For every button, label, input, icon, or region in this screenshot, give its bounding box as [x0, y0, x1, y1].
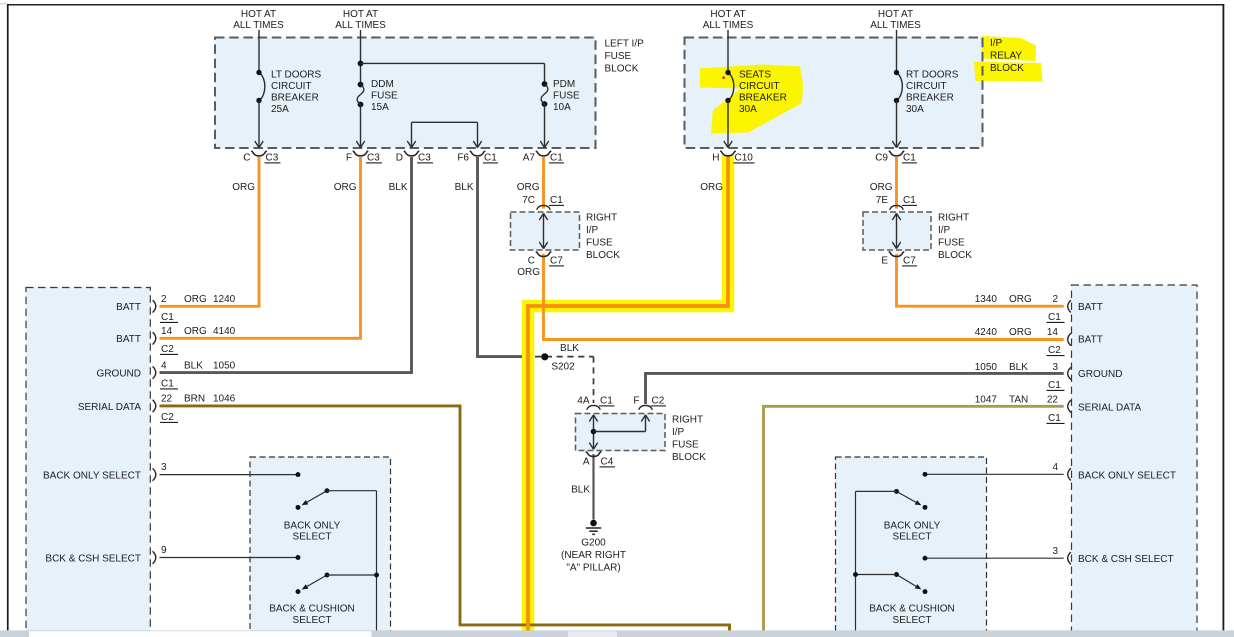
svg-text:2: 2 — [1052, 294, 1058, 305]
svg-text:C9: C9 — [875, 153, 888, 164]
svg-text:BACK & CUSHION: BACK & CUSHION — [269, 604, 355, 615]
svg-text:ALL TIMES: ALL TIMES — [870, 20, 921, 31]
svg-text:C3: C3 — [367, 153, 380, 164]
svg-text:ALL TIMES: ALL TIMES — [335, 20, 386, 31]
svg-text:BCK & CSH SELECT: BCK & CSH SELECT — [45, 554, 141, 565]
svg-text:S202: S202 — [551, 362, 575, 373]
svg-text:D: D — [396, 153, 403, 164]
svg-text:22: 22 — [161, 394, 173, 405]
svg-text:BCK & CSH SELECT: BCK & CSH SELECT — [1078, 554, 1174, 565]
svg-text:4240: 4240 — [975, 327, 998, 338]
svg-text:BLK: BLK — [389, 182, 408, 193]
svg-text:BACK ONLY: BACK ONLY — [884, 520, 941, 531]
svg-text:C1: C1 — [1048, 413, 1061, 424]
svg-text:1240: 1240 — [213, 294, 236, 305]
svg-text:HOT AT: HOT AT — [241, 9, 276, 20]
svg-text:FUSE: FUSE — [672, 440, 699, 451]
svg-text:GROUND: GROUND — [97, 369, 141, 380]
svg-text:C3: C3 — [266, 153, 279, 164]
svg-text:BLOCK: BLOCK — [938, 250, 972, 261]
svg-text:C1: C1 — [550, 195, 563, 206]
svg-text:DDM: DDM — [371, 79, 394, 90]
svg-text:C1: C1 — [161, 312, 174, 323]
svg-text:BLK: BLK — [1009, 362, 1028, 373]
svg-text:7C: 7C — [522, 195, 535, 206]
svg-text:1046: 1046 — [213, 394, 236, 405]
svg-text:BLOCK: BLOCK — [672, 452, 706, 463]
svg-text:BLK: BLK — [455, 182, 474, 193]
svg-text:ORG: ORG — [184, 294, 207, 305]
svg-text:I/P: I/P — [586, 225, 599, 236]
svg-text:ORG: ORG — [517, 182, 540, 193]
svg-text:A7: A7 — [523, 153, 536, 164]
svg-text:9: 9 — [161, 545, 167, 556]
svg-text:I/P: I/P — [672, 427, 685, 438]
svg-text:"A" PILLAR): "A" PILLAR) — [566, 563, 620, 574]
svg-text:FUSE: FUSE — [605, 51, 632, 62]
svg-text:15A: 15A — [371, 102, 389, 113]
svg-text:RT DOORS: RT DOORS — [906, 70, 959, 81]
svg-text:ORG: ORG — [517, 267, 540, 278]
svg-text:4: 4 — [1052, 462, 1058, 473]
svg-text:C1: C1 — [484, 153, 497, 164]
svg-text:BLOCK: BLOCK — [605, 64, 639, 75]
svg-text:A: A — [583, 457, 590, 468]
svg-text:C1: C1 — [161, 379, 174, 390]
svg-text:3: 3 — [161, 462, 167, 473]
svg-text:22: 22 — [1047, 395, 1059, 406]
svg-text:C3: C3 — [418, 153, 431, 164]
svg-text:G200: G200 — [581, 538, 606, 549]
svg-text:ORG: ORG — [232, 182, 255, 193]
svg-text:C2: C2 — [161, 344, 174, 355]
svg-text:BREAKER: BREAKER — [739, 93, 787, 104]
svg-text:14: 14 — [1047, 327, 1059, 338]
svg-text:SELECT: SELECT — [293, 532, 332, 543]
svg-text:C10: C10 — [735, 153, 754, 164]
svg-text:ORG: ORG — [184, 326, 207, 337]
svg-text:FUSE: FUSE — [586, 238, 613, 249]
svg-text:SELECT: SELECT — [893, 615, 932, 626]
svg-text:2: 2 — [161, 294, 167, 305]
svg-text:BREAKER: BREAKER — [906, 93, 954, 104]
svg-text:4A: 4A — [577, 396, 590, 407]
svg-text:PDM: PDM — [553, 79, 575, 90]
svg-text:1050: 1050 — [975, 362, 998, 373]
svg-text:C2: C2 — [652, 396, 665, 407]
svg-text:GROUND: GROUND — [1078, 369, 1122, 380]
svg-text:F6: F6 — [457, 153, 469, 164]
svg-text:LEFT I/P: LEFT I/P — [605, 39, 645, 50]
svg-text:ALL TIMES: ALL TIMES — [703, 20, 754, 31]
svg-text:BACK & CUSHION: BACK & CUSHION — [869, 604, 955, 615]
svg-text:ORG: ORG — [1009, 327, 1032, 338]
svg-text:ORG: ORG — [700, 182, 723, 193]
svg-text:30A: 30A — [906, 104, 924, 115]
svg-text:C1: C1 — [600, 396, 613, 407]
svg-text:BLK: BLK — [184, 361, 203, 372]
svg-text:F: F — [346, 153, 352, 164]
svg-text:25A: 25A — [271, 104, 289, 115]
svg-text:3: 3 — [1052, 546, 1058, 557]
svg-text:H: H — [712, 153, 719, 164]
svg-text:1050: 1050 — [213, 361, 236, 372]
svg-text:FUSE: FUSE — [553, 91, 580, 102]
svg-text:30A: 30A — [739, 104, 757, 115]
svg-text:LT DOORS: LT DOORS — [271, 70, 322, 81]
svg-text:C1: C1 — [903, 153, 916, 164]
svg-text:ALL TIMES: ALL TIMES — [233, 20, 284, 31]
svg-text:E: E — [881, 256, 888, 267]
svg-text:CIRCUIT: CIRCUIT — [271, 81, 312, 92]
svg-text:BRN: BRN — [184, 394, 205, 405]
svg-text:RIGHT: RIGHT — [938, 213, 969, 224]
svg-text:(NEAR RIGHT: (NEAR RIGHT — [561, 550, 626, 561]
svg-text:BATT: BATT — [1078, 335, 1103, 346]
svg-text:HOT AT: HOT AT — [878, 9, 913, 20]
svg-text:C1: C1 — [550, 153, 563, 164]
svg-text:ORG: ORG — [1009, 294, 1032, 305]
svg-text:1047: 1047 — [975, 395, 998, 406]
svg-text:SERIAL DATA: SERIAL DATA — [1078, 403, 1141, 414]
svg-text:14: 14 — [161, 326, 173, 337]
svg-text:FUSE: FUSE — [938, 238, 965, 249]
svg-text:RIGHT: RIGHT — [672, 415, 703, 426]
svg-text:I/P: I/P — [990, 38, 1003, 49]
svg-text:CIRCUIT: CIRCUIT — [906, 81, 947, 92]
svg-text:C4: C4 — [601, 457, 614, 468]
svg-text:4140: 4140 — [213, 326, 236, 337]
svg-text:4: 4 — [161, 361, 167, 372]
svg-text:BREAKER: BREAKER — [271, 93, 319, 104]
svg-text:CIRCUIT: CIRCUIT — [739, 81, 780, 92]
svg-text:HOT AT: HOT AT — [710, 9, 745, 20]
svg-text:TAN: TAN — [1009, 395, 1028, 406]
svg-text:F: F — [633, 396, 639, 407]
svg-text:RELAY: RELAY — [990, 51, 1022, 62]
svg-text:1340: 1340 — [975, 294, 998, 305]
svg-text:SELECT: SELECT — [293, 615, 332, 626]
svg-text:HOT AT: HOT AT — [343, 9, 378, 20]
svg-text:C: C — [528, 256, 535, 267]
svg-text:BATT: BATT — [116, 334, 141, 345]
svg-text:C1: C1 — [1048, 312, 1061, 323]
svg-text:ORG: ORG — [334, 182, 357, 193]
svg-text:BATT: BATT — [116, 302, 141, 313]
svg-text:C7: C7 — [550, 256, 563, 267]
svg-text:BACK ONLY SELECT: BACK ONLY SELECT — [43, 471, 141, 482]
svg-text:BLOCK: BLOCK — [586, 250, 620, 261]
svg-text:SELECT: SELECT — [893, 532, 932, 543]
svg-text:SEATS: SEATS — [739, 70, 771, 81]
svg-text:BLK: BLK — [560, 343, 579, 354]
svg-text:10A: 10A — [553, 102, 571, 113]
svg-text:BACK ONLY: BACK ONLY — [284, 520, 341, 531]
svg-text:BATT: BATT — [1078, 302, 1103, 313]
svg-text:BLK: BLK — [571, 485, 590, 496]
svg-text:RIGHT: RIGHT — [586, 213, 617, 224]
svg-text:C1: C1 — [903, 195, 916, 206]
svg-text:C2: C2 — [1048, 345, 1061, 356]
svg-text:C: C — [243, 153, 250, 164]
svg-text:FUSE: FUSE — [371, 91, 398, 102]
svg-text:SERIAL DATA: SERIAL DATA — [78, 402, 141, 413]
svg-text:3: 3 — [1052, 362, 1058, 373]
svg-text:C2: C2 — [161, 412, 174, 423]
svg-text:7E: 7E — [876, 195, 889, 206]
svg-text:ORG: ORG — [870, 182, 893, 193]
svg-text:C1: C1 — [1048, 380, 1061, 391]
svg-text:C7: C7 — [903, 256, 916, 267]
svg-text:I/P: I/P — [938, 225, 951, 236]
svg-text:BLOCK: BLOCK — [990, 63, 1024, 74]
svg-text:BACK ONLY SELECT: BACK ONLY SELECT — [1078, 470, 1176, 481]
